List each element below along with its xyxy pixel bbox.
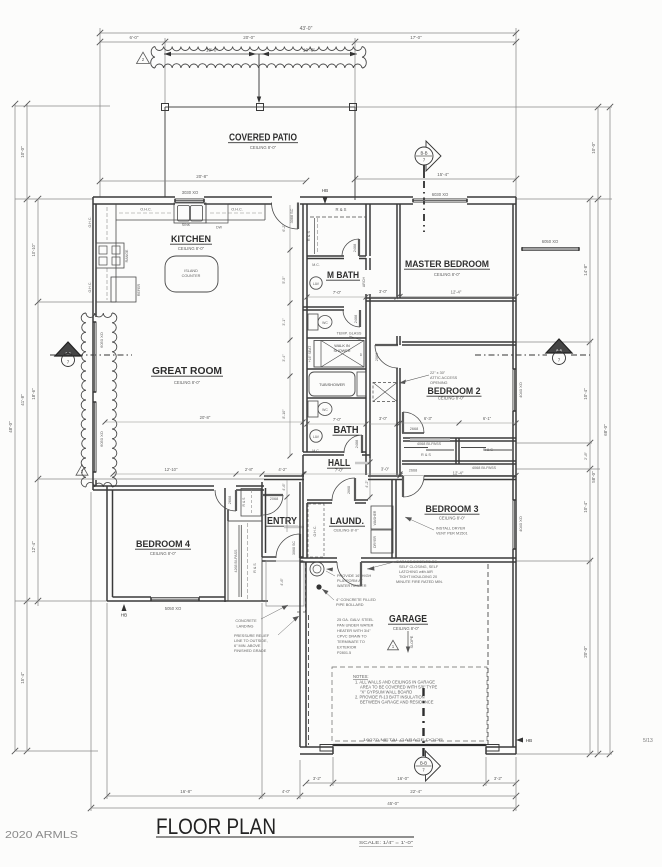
- svg-text:R & S: R & S: [242, 497, 246, 507]
- svg-text:22'-4": 22'-4": [410, 789, 422, 794]
- svg-text:25 GA. GALV. STEEL: 25 GA. GALV. STEEL: [337, 618, 374, 622]
- svg-text:R & S: R & S: [336, 207, 347, 212]
- svg-text:GARAGE DOOR TO BE: GARAGE DOOR TO BE: [396, 560, 437, 564]
- svg-text:CEILING 8'-0": CEILING 8'-0": [393, 626, 420, 631]
- svg-text:O.H.C.: O.H.C.: [88, 217, 92, 228]
- svg-text:CEILING 8'-0": CEILING 8'-0": [439, 516, 466, 521]
- svg-text:PROVIDE 16" HIGH: PROVIDE 16" HIGH: [337, 574, 372, 578]
- svg-text:P2801.5: P2801.5: [337, 651, 351, 655]
- svg-text:CPVC DRAIN TO: CPVC DRAIN TO: [337, 635, 367, 639]
- svg-text:O.H.C.: O.H.C.: [88, 282, 92, 293]
- svg-text:3030 XO: 3030 XO: [182, 190, 199, 195]
- svg-text:R & S: R & S: [421, 453, 431, 457]
- svg-text:M BATH: M BATH: [327, 270, 359, 281]
- svg-text:20'-0": 20'-0": [243, 35, 255, 40]
- svg-text:17'-0": 17'-0": [410, 35, 422, 40]
- svg-text:4068 BI-PASS: 4068 BI-PASS: [472, 466, 497, 470]
- svg-text:BATH: BATH: [334, 425, 359, 436]
- svg-text:4040 XO: 4040 XO: [518, 382, 523, 398]
- svg-text:6050 XO: 6050 XO: [542, 239, 559, 244]
- svg-text:5'-5": 5'-5": [282, 276, 286, 284]
- svg-text:B-B: B-B: [420, 761, 427, 766]
- svg-text:+16" SEAT: +16" SEAT: [308, 346, 312, 363]
- svg-text:SHOWER: SHOWER: [333, 349, 350, 353]
- svg-text:45'-0": 45'-0": [387, 801, 399, 806]
- svg-text:2668: 2668: [410, 427, 418, 431]
- svg-text:10'-0": 10'-0": [591, 142, 596, 154]
- svg-text:PAN UNDER WATER: PAN UNDER WATER: [337, 624, 374, 628]
- svg-text:ISLAND: ISLAND: [184, 269, 198, 273]
- svg-text:5050 XO: 5050 XO: [165, 606, 182, 611]
- svg-text:LAV: LAV: [313, 435, 320, 439]
- svg-text:22" x 30": 22" x 30": [430, 371, 446, 375]
- svg-text:2468: 2468: [355, 440, 359, 448]
- svg-text:O.H.C.: O.H.C.: [313, 526, 317, 537]
- svg-text:CEILING 8'-0": CEILING 8'-0": [438, 396, 465, 401]
- svg-text:4040 XO: 4040 XO: [518, 516, 523, 532]
- svg-text:2468: 2468: [354, 315, 358, 323]
- svg-text:OPENING: OPENING: [430, 381, 448, 385]
- svg-text:2068: 2068: [270, 497, 278, 501]
- svg-text:LATCHING with AIR: LATCHING with AIR: [399, 570, 433, 574]
- svg-text:SCALE: 1/4" = 1'-0": SCALE: 1/4" = 1'-0": [359, 840, 414, 845]
- svg-text:2068: 2068: [375, 353, 379, 361]
- svg-text:MASTER BEDROOM: MASTER BEDROOM: [405, 259, 489, 270]
- svg-text:4068 BI-PASS: 4068 BI-PASS: [417, 442, 442, 446]
- svg-text:CEILING 8'-0": CEILING 8'-0": [434, 272, 461, 277]
- svg-text:18'-6": 18'-6": [31, 388, 36, 400]
- svg-text:68'-0": 68'-0": [603, 424, 608, 436]
- svg-text:3'-2": 3'-2": [494, 776, 503, 781]
- svg-text:6'-2": 6'-2": [282, 224, 286, 232]
- svg-text:4268 BI-PASS: 4268 BI-PASS: [234, 549, 238, 573]
- svg-text:4'-2": 4'-2": [278, 467, 287, 472]
- svg-text:REFER: REFER: [137, 284, 141, 297]
- svg-text:2668: 2668: [409, 469, 417, 473]
- svg-text:HB: HB: [526, 738, 532, 743]
- svg-text:ARCH: ARCH: [362, 277, 366, 288]
- svg-text:PRESSURE RELIEF: PRESSURE RELIEF: [234, 634, 270, 638]
- svg-text:PLATFORM AT: PLATFORM AT: [337, 579, 363, 583]
- svg-text:BEDROOM 4: BEDROOM 4: [136, 539, 191, 550]
- svg-text:HB: HB: [121, 613, 127, 618]
- svg-text:6030 XO: 6030 XO: [432, 192, 449, 197]
- svg-text:16'-8": 16'-8": [180, 789, 192, 794]
- svg-text:CEILING 8'-0": CEILING 8'-0": [150, 551, 177, 556]
- svg-text:3'-0": 3'-0": [379, 289, 388, 294]
- svg-text:FLOOR PLAN: FLOOR PLAN: [156, 814, 276, 839]
- svg-text:2668: 2668: [347, 486, 351, 494]
- svg-text:HEATER WITH 3/4": HEATER WITH 3/4": [337, 629, 371, 633]
- svg-text:20'-8": 20'-8": [196, 174, 208, 179]
- svg-text:RANGE: RANGE: [125, 249, 129, 262]
- svg-text:5/13: 5/13: [643, 738, 653, 744]
- svg-text:DW: DW: [216, 226, 223, 230]
- svg-text:SLOPE: SLOPE: [410, 635, 414, 648]
- svg-text:WASHER: WASHER: [373, 510, 377, 525]
- svg-text:SELF CLOSING, SELF: SELF CLOSING, SELF: [399, 565, 439, 569]
- svg-text:CEILING 8'-0": CEILING 8'-0": [250, 145, 277, 150]
- svg-text:CONCRETE: CONCRETE: [235, 619, 257, 623]
- svg-text:16'-0": 16'-0": [397, 776, 409, 781]
- svg-text:DRYER: DRYER: [373, 536, 377, 548]
- svg-text:BETWEEN GARAGE AND RESIDENCE: BETWEEN GARAGE AND RESIDENCE: [360, 700, 434, 705]
- svg-text:CEILING 8'-0": CEILING 8'-0": [178, 246, 205, 251]
- svg-text:O.H.C.: O.H.C.: [140, 208, 152, 212]
- svg-text:6'-0": 6'-0": [130, 35, 139, 40]
- svg-text:12'-4": 12'-4": [31, 541, 36, 553]
- svg-text:KITCHEN: KITCHEN: [171, 234, 211, 245]
- svg-text:WATER HEATER: WATER HEATER: [337, 584, 367, 588]
- svg-text:20'-0": 20'-0": [583, 646, 588, 658]
- svg-text:10'-4": 10'-4": [583, 501, 588, 513]
- svg-text:GREAT ROOM: GREAT ROOM: [152, 366, 222, 377]
- svg-text:15'-4": 15'-4": [437, 172, 449, 177]
- svg-text:TERMINATE TO: TERMINATE TO: [337, 640, 365, 644]
- svg-text:BEDROOM 3: BEDROOM 3: [426, 504, 479, 515]
- svg-text:2468: 2468: [353, 244, 357, 252]
- svg-text:3'-4": 3'-4": [282, 354, 286, 362]
- svg-text:12'-10": 12'-10": [165, 467, 179, 472]
- svg-text:FINISHED GRADE: FINISHED GRADE: [234, 649, 267, 653]
- svg-text:COVERED PATIO: COVERED PATIO: [229, 133, 297, 144]
- svg-text:R & S: R & S: [306, 230, 311, 241]
- svg-text:2668: 2668: [228, 496, 232, 504]
- svg-text:4'-2": 4'-2": [365, 480, 369, 488]
- svg-text:3068 SC: 3068 SC: [292, 541, 296, 555]
- svg-text:7'-0": 7'-0": [335, 468, 344, 473]
- svg-text:12'-4": 12'-4": [453, 471, 464, 476]
- svg-text:15'-4": 15'-4": [20, 672, 25, 684]
- svg-text:2'-8": 2'-8": [245, 467, 254, 472]
- svg-text:4'-6": 4'-6": [280, 578, 284, 586]
- svg-text:ENTRY: ENTRY: [267, 515, 297, 527]
- svg-text:6'-3": 6'-3": [424, 416, 433, 421]
- svg-text:LINE TO OUTSIDE,: LINE TO OUTSIDE,: [234, 639, 268, 643]
- svg-text:3'-2": 3'-2": [313, 776, 322, 781]
- svg-text:LAV: LAV: [313, 282, 320, 286]
- svg-text:2'-8": 2'-8": [583, 451, 588, 460]
- svg-text:CEILING 8'-0": CEILING 8'-0": [174, 380, 201, 385]
- svg-text:7'-0": 7'-0": [333, 417, 342, 422]
- svg-text:ATTIC ACCESS: ATTIC ACCESS: [430, 376, 458, 380]
- svg-text:6050 XO: 6050 XO: [99, 332, 104, 348]
- svg-text:LANDING: LANDING: [237, 625, 254, 629]
- svg-text:10'-4": 10'-4": [583, 388, 588, 400]
- svg-text:O.H.C.: O.H.C.: [231, 208, 243, 212]
- svg-text:CEILING 8'-0": CEILING 8'-0": [333, 528, 359, 533]
- svg-text:2020 ARMLS: 2020 ARMLS: [5, 829, 78, 841]
- svg-text:14'-8": 14'-8": [583, 264, 588, 276]
- svg-text:43'-0": 43'-0": [300, 26, 313, 32]
- svg-text:12'-4": 12'-4": [451, 290, 462, 295]
- svg-text:41'-8": 41'-8": [20, 394, 25, 406]
- svg-text:6" MIN. ABOVE: 6" MIN. ABOVE: [234, 644, 261, 648]
- svg-text:NOTES:: NOTES:: [353, 674, 369, 679]
- svg-text:3'-1": 3'-1": [282, 318, 286, 326]
- svg-text:4'-6": 4'-6": [282, 483, 286, 491]
- svg-text:7'-0": 7'-0": [333, 290, 342, 295]
- svg-text:6050 XO: 6050 XO: [99, 431, 104, 447]
- svg-text:LAUND.: LAUND.: [330, 516, 364, 527]
- svg-text:4'-0": 4'-0": [282, 789, 291, 794]
- svg-text:INSTALL DRYER: INSTALL DRYER: [436, 527, 466, 531]
- svg-text:R & S: R & S: [253, 563, 257, 573]
- svg-text:6'-1": 6'-1": [483, 416, 492, 421]
- svg-text:TIGHT MOULDING 20: TIGHT MOULDING 20: [399, 575, 437, 579]
- svg-text:EXTERIOR: EXTERIOR: [337, 646, 357, 650]
- svg-text:48'-0": 48'-0": [8, 421, 13, 433]
- svg-text:WALK IN: WALK IN: [334, 344, 350, 348]
- svg-text:MINUTE FIRE RATED MIN.: MINUTE FIRE RATED MIN.: [396, 580, 443, 584]
- svg-text:3068 SC: 3068 SC: [290, 208, 294, 223]
- svg-text:WC: WC: [322, 321, 328, 325]
- svg-text:PIPE BOLLARD: PIPE BOLLARD: [336, 603, 364, 607]
- svg-text:10'-10": 10'-10": [31, 243, 36, 257]
- svg-text:SINK: SINK: [182, 223, 191, 227]
- svg-text:WC: WC: [322, 408, 328, 412]
- svg-text:TEMP. GLASS: TEMP. GLASS: [337, 332, 362, 336]
- svg-text:10'-0": 10'-0": [20, 146, 25, 158]
- svg-text:M.C.: M.C.: [312, 263, 320, 267]
- svg-text:TUB/SHOWER: TUB/SHOWER: [319, 383, 345, 387]
- svg-text:58'-0": 58'-0": [591, 471, 596, 483]
- svg-text:VENT PER M1501: VENT PER M1501: [436, 532, 468, 536]
- svg-text:3'-0": 3'-0": [379, 416, 388, 421]
- svg-text:8'-10": 8'-10": [282, 409, 286, 419]
- svg-text:4" CONCRETE FILLED: 4" CONCRETE FILLED: [336, 598, 376, 602]
- svg-text:B-B: B-B: [421, 151, 428, 156]
- svg-text:HB: HB: [322, 188, 328, 193]
- svg-text:GARAGE: GARAGE: [389, 614, 427, 625]
- svg-text:COUNTER: COUNTER: [182, 274, 201, 278]
- svg-text:20'-8": 20'-8": [200, 415, 211, 420]
- svg-text:3'-0": 3'-0": [381, 467, 390, 472]
